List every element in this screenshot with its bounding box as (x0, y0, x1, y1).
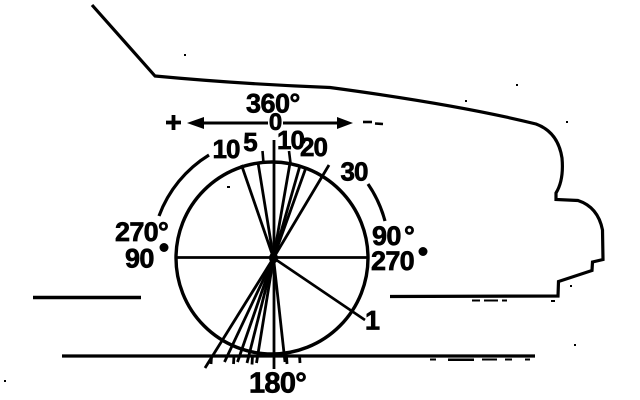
noise speck 3 (516, 84, 518, 86)
upper fan line 10 left (242, 165, 274, 258)
noise speck 2 (465, 100, 467, 102)
upper fan line 30 right (274, 165, 330, 258)
plus sign (166, 115, 181, 130)
lower fan line d (247, 258, 274, 363)
noise speck 1 (184, 54, 186, 56)
upper fan line 5 left (258, 163, 274, 259)
bottom tick 2 (232, 356, 235, 364)
noise speck 7 (4, 380, 6, 382)
ground line (62, 354, 535, 357)
noise dashes under ground line (430, 359, 530, 362)
bottom tick 5 (298, 355, 301, 363)
fan convergence knot (269, 253, 278, 264)
noise speck 8 (227, 186, 230, 188)
lower fan line b (225, 258, 274, 362)
car body outline (92, 5, 603, 297)
left arrowhead (187, 117, 204, 129)
dash 1 after arrow (363, 121, 372, 124)
svg-text:30: 30 (341, 157, 368, 187)
noise speck 6 (574, 344, 576, 346)
right arrowhead (337, 117, 353, 129)
svg-text:20: 20 (300, 132, 327, 162)
svg-text:180°: 180° (249, 368, 306, 400)
upper fan line 10 right (274, 163, 291, 258)
tick mark 10 top (289, 151, 291, 163)
bottom tick 1 (210, 356, 213, 364)
upper fan line 20 right (274, 166, 301, 259)
svg-text:270: 270 (371, 246, 414, 276)
arrow shaft left (202, 122, 268, 125)
svg-text:10: 10 (213, 134, 240, 164)
degree dot of right 270 (419, 247, 428, 256)
left rocker line (33, 296, 141, 300)
svg-text:90: 90 (125, 244, 154, 274)
lower fan line right of vertical (274, 258, 286, 362)
wheel circle (176, 162, 368, 354)
arrow shaft right (283, 122, 339, 125)
bottom tick 4 (285, 356, 288, 364)
upper fan line 20b right (274, 168, 307, 259)
lower fan line e (257, 258, 274, 363)
bottom tick 3 (251, 356, 254, 365)
noise speck 4 (566, 121, 568, 123)
noise dashes under right rocker line (472, 300, 555, 303)
svg-text:5: 5 (243, 127, 257, 157)
outer arc left (159, 155, 209, 216)
pointer line to label 1 (274, 258, 366, 320)
horizontal diameter line (176, 256, 368, 259)
dash 2 after arrow (375, 122, 383, 125)
tick mark 5 top (263, 151, 264, 163)
degree dot of left 90 (160, 243, 169, 252)
noise speck 5 (570, 285, 572, 287)
lower fan line c (238, 258, 274, 362)
svg-text:270°: 270° (115, 217, 168, 247)
vertical zero line (273, 140, 276, 369)
outer arc right (368, 184, 385, 221)
lower fan steep left line (205, 258, 274, 368)
svg-text:1: 1 (365, 306, 380, 336)
